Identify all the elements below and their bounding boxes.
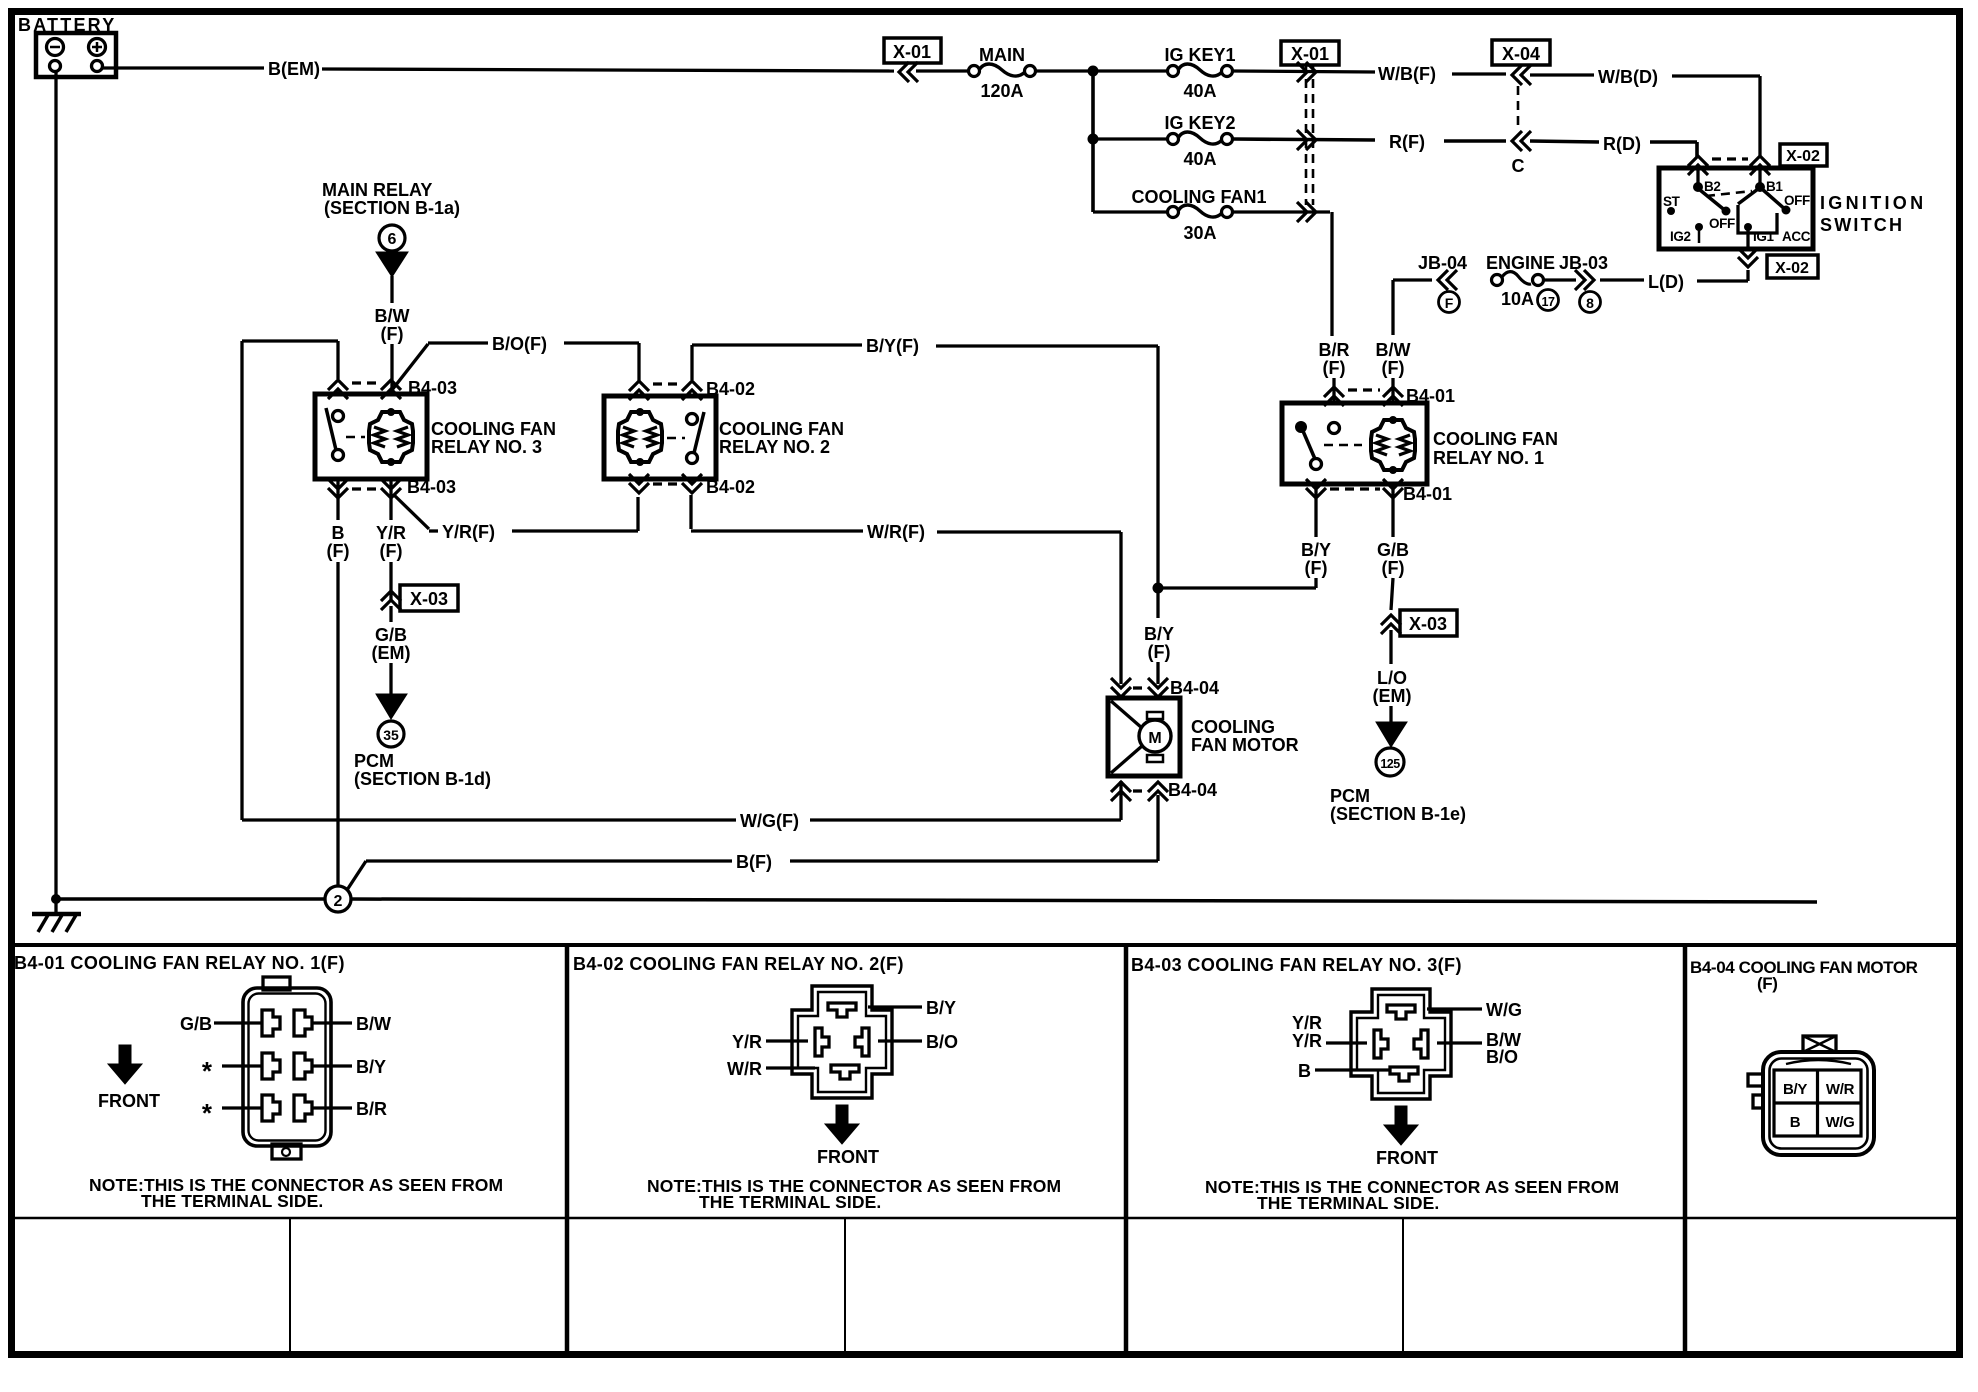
svg-text:B(EM): B(EM) [268, 59, 320, 79]
svg-text:6: 6 [388, 231, 397, 248]
B4-04 connector body [1763, 1052, 1874, 1155]
svg-text:FRONT: FRONT [817, 1147, 879, 1167]
diagonal node 2 to B(F) wire [347, 861, 366, 890]
svg-text:L(D): L(D) [1648, 272, 1684, 292]
svg-text:C: C [1512, 156, 1525, 176]
label B4-01 bottom [1403, 484, 1452, 504]
label IGNITION SWITCH [1820, 193, 1926, 235]
relay NO.1 switch [1295, 421, 1362, 470]
svg-text:R(D): R(D) [1603, 134, 1641, 154]
label Y/R(F) [442, 522, 495, 542]
label B4-04 bottom [1168, 780, 1217, 800]
svg-text:X-03: X-03 [1409, 614, 1447, 634]
cooling fan motor label [1191, 717, 1299, 755]
connector B4-02 top chevrons [629, 381, 702, 400]
wire B/Y to junction [1163, 578, 1316, 588]
svg-text:B/O: B/O [926, 1032, 958, 1052]
label B/Y (F) relay NO.1 [1301, 540, 1331, 578]
fuse MAIN 120A [969, 64, 1036, 77]
connector X-04 dashed line [1517, 86, 1520, 130]
svg-text:X-03: X-03 [410, 589, 448, 609]
connector X-01 right label box [1281, 41, 1339, 65]
ignition switch B1 arm left [1738, 189, 1758, 204]
battery [18, 15, 116, 77]
svg-text:L/O: L/O [1377, 668, 1407, 688]
B4-03 connector body [1351, 989, 1451, 1099]
label W/B(F) [1378, 64, 1436, 84]
fuse COOLING FAN1 30A [1168, 205, 1233, 218]
section header B4-02 [573, 954, 904, 974]
svg-text:ENGINE: ENGINE [1486, 253, 1555, 273]
label SECTION B-1d [354, 769, 491, 789]
arrow from main relay [376, 252, 408, 277]
B4-02 connector body [792, 986, 892, 1098]
label L/O (EM) [1373, 668, 1412, 706]
label 40A row2 [1183, 149, 1216, 169]
wire riser to relay NO.3 pin B [242, 341, 338, 379]
table section divider left of B4-04 [1683, 945, 1688, 1354]
label 30A [1183, 223, 1216, 243]
svg-text:(F): (F) [1382, 558, 1405, 578]
label 120A [980, 81, 1023, 101]
label Y/R (F) vertical [376, 523, 406, 561]
svg-text:B4-02: B4-02 [706, 477, 755, 497]
svg-text:B4-04 COOLING FAN MOTOR: B4-04 COOLING FAN MOTOR [1690, 958, 1918, 977]
table section divider left of B4-02 [565, 945, 570, 1354]
lower row mid divider 2 [844, 1218, 846, 1354]
ground bus wire [51, 894, 1817, 904]
svg-text:COOLING FAN: COOLING FAN [431, 419, 556, 439]
connector B4-04 bottom chevrons [1111, 782, 1168, 801]
svg-text:B4-03 COOLING FAN RELAY NO. 3(: B4-03 COOLING FAN RELAY NO. 3(F) [1131, 955, 1462, 975]
svg-text:X-02: X-02 [1786, 148, 1820, 165]
wire B(EM) label to X-01 [322, 69, 894, 71]
fuse IG KEY2 40A [1168, 132, 1233, 145]
svg-text:B/W: B/W [375, 306, 410, 326]
wire B/Y(F) relay NO.2 up [692, 345, 862, 380]
label COOLING FAN1 [1131, 187, 1266, 207]
junction dot row1 [1088, 66, 1099, 77]
B4-04 top bowtie [1803, 1036, 1836, 1052]
ignition switch IG1 bracket [1738, 205, 1777, 233]
svg-text:PCM: PCM [354, 751, 394, 771]
svg-text:MAIN RELAY: MAIN RELAY [322, 180, 432, 200]
svg-text:RELAY NO. 1: RELAY NO. 1 [1433, 448, 1544, 468]
svg-text:X-04: X-04 [1502, 44, 1540, 64]
relay NO.3 coil [369, 408, 413, 466]
label C under X-04 [1512, 156, 1525, 176]
wire battery negative to ground bus [54, 72, 57, 914]
svg-text:B/Y: B/Y [1144, 624, 1174, 644]
ignition switch box [1659, 168, 1813, 249]
cooling fan motor box [1108, 698, 1180, 776]
label W/R B4-02 [727, 1059, 762, 1079]
svg-text:B1: B1 [1766, 179, 1783, 194]
wire L(D) to JB-03 [1600, 278, 1644, 281]
relay NO.2 label [719, 419, 844, 457]
label MAIN [979, 45, 1025, 65]
wire R(D) to ignition switch B2 [1650, 142, 1697, 157]
wire relay NO.3 pin B down [336, 479, 339, 520]
svg-text:*: * [202, 1056, 213, 1086]
connector B4-02 bottom chevrons [629, 474, 702, 493]
B4-03 pin wires [1315, 1009, 1482, 1070]
vertical bus from row1 junction [1091, 71, 1095, 212]
B4-04 left tabs [1748, 1074, 1763, 1108]
ignition switch label OFF right [1784, 193, 1810, 208]
svg-text:M: M [1148, 730, 1161, 747]
ignition switch label ACC [1782, 229, 1811, 244]
B4-02 pins [815, 1003, 869, 1079]
svg-text:125: 125 [1380, 757, 1400, 771]
wire IG KEY1 to X-01 crossing [1233, 71, 1375, 72]
label B4-03 top [408, 378, 457, 398]
wire row2 to IG KEY2 fuse [1093, 137, 1167, 140]
svg-text:JB-04: JB-04 [1418, 253, 1467, 273]
label B/W (F) above relay NO.3 [375, 306, 410, 344]
label Y/R B4-02 [732, 1032, 762, 1052]
wire W/R(F) relay NO.2 down [691, 495, 863, 531]
relay NO.2 switch [667, 412, 704, 464]
connector X-02 top chevrons [1688, 156, 1770, 175]
note B4-01 line1 [89, 1175, 503, 1195]
wire elbow down to B/R [1330, 212, 1333, 336]
svg-text:W/R: W/R [1826, 1081, 1855, 1098]
label G/B pin [180, 1014, 212, 1034]
svg-text:(F): (F) [1305, 558, 1328, 578]
label 40A row1 [1183, 81, 1216, 101]
svg-text:R(F): R(F) [1389, 132, 1425, 152]
circled terminal 6 [379, 225, 405, 251]
B4-03 FRONT arrow [1384, 1106, 1418, 1145]
label B(F) [736, 852, 772, 872]
wire MAIN fuse to IG KEY1 fuse [1036, 69, 1167, 72]
svg-text:Y/R(F): Y/R(F) [442, 522, 495, 542]
label B/Y B4-04 [1783, 1081, 1807, 1098]
relay NO.3 label [431, 419, 556, 457]
wire JB-03 to ENGINE fuse [1544, 278, 1576, 281]
ignition switch dashed link [1706, 191, 1752, 196]
wire W/R(F) to motor [937, 532, 1121, 684]
arrow to PCM 125 [1376, 722, 1407, 747]
diagonal Y/R(F) branch [393, 494, 429, 529]
connector B4-04 top chevrons [1111, 678, 1168, 697]
wire W/B(F) to X-04 [1452, 72, 1506, 75]
label B/W pin [356, 1014, 391, 1034]
svg-text:B/Y: B/Y [926, 998, 956, 1018]
svg-text:W/G(F): W/G(F) [740, 811, 799, 831]
connector X-04 chevron row2 [1512, 131, 1531, 151]
wire W/B(D) to ignition switch B1 [1672, 76, 1760, 157]
connector X-03 right chevron [1381, 615, 1401, 634]
svg-text:G/B: G/B [180, 1014, 212, 1034]
svg-text:Y/R: Y/R [1292, 1031, 1322, 1051]
svg-text:B2: B2 [1704, 179, 1720, 194]
svg-text:B4-03: B4-03 [407, 477, 456, 497]
svg-text:B(F): B(F) [736, 852, 772, 872]
svg-text:B/W: B/W [356, 1014, 391, 1034]
connector B4-01 bottom chevrons [1306, 479, 1403, 498]
label B/O B4-03 [1486, 1047, 1518, 1067]
svg-text:FRONT: FRONT [98, 1091, 160, 1111]
svg-text:30A: 30A [1183, 223, 1216, 243]
connector X-04 chevron row1 [1512, 65, 1531, 85]
label B(EM) [268, 59, 320, 79]
node 2 on ground bus [325, 886, 351, 912]
svg-text:ST: ST [1663, 194, 1681, 209]
label Y/R lower B4-03 [1292, 1031, 1322, 1051]
label G/B (EM) [372, 625, 411, 663]
wire motor to W/G [810, 781, 1121, 820]
svg-text:COOLING FAN: COOLING FAN [719, 419, 844, 439]
ignition switch label IG2 [1670, 223, 1703, 244]
wire R(F) to X-04 [1444, 139, 1506, 143]
B4-01 FRONT arrow [108, 1045, 142, 1084]
svg-text:IG2: IG2 [1670, 229, 1691, 244]
svg-text:B: B [1298, 1061, 1311, 1081]
svg-text:17: 17 [1542, 295, 1555, 309]
label B/Y pin [356, 1057, 386, 1077]
svg-text:X-01: X-01 [1291, 44, 1329, 64]
wire Y/R(F) to relay NO.2 [512, 497, 638, 531]
label star pin 1 [202, 1056, 213, 1086]
B4-03 pins [1374, 1005, 1428, 1081]
wire B/Y label to motor top [1156, 662, 1159, 684]
label PCM left [354, 751, 394, 771]
wire main relay arrow to B/W label [390, 276, 393, 303]
svg-text:PCM: PCM [1330, 786, 1370, 806]
svg-text:RELAY NO. 2: RELAY NO. 2 [719, 437, 830, 457]
svg-text:FRONT: FRONT [1376, 1148, 1438, 1168]
relay NO.2 coil [618, 408, 662, 466]
svg-text:F: F [1445, 295, 1454, 311]
wire B/O(F) left stub [428, 341, 488, 344]
svg-text:120A: 120A [980, 81, 1023, 101]
svg-text:B/W: B/W [1376, 340, 1411, 360]
svg-text:B: B [332, 523, 345, 543]
svg-text:ACC: ACC [1782, 229, 1811, 244]
label B B4-03 [1298, 1061, 1311, 1081]
table section divider left of B4-03 [1124, 945, 1129, 1354]
wire B(F) label to motor [790, 795, 1158, 861]
label B/R (F) [1319, 340, 1350, 378]
svg-text:B4-02 COOLING FAN RELAY NO. 2(: B4-02 COOLING FAN RELAY NO. 2(F) [573, 954, 904, 974]
wire B/Y(F) to vertical [936, 346, 1158, 586]
label B B4-04 [1790, 1114, 1801, 1131]
svg-text:B/O(F): B/O(F) [492, 334, 547, 354]
relay NO.3 switch [326, 408, 365, 461]
note B4-02 line2 [699, 1192, 881, 1212]
wire X-01 to MAIN fuse [916, 69, 968, 72]
svg-text:THE TERMINAL SIDE.: THE TERMINAL SIDE. [141, 1191, 323, 1211]
wire X-04 to W/B(D) label [1530, 73, 1594, 76]
svg-text:B4-04: B4-04 [1168, 780, 1217, 800]
ignition switch label ST [1663, 194, 1681, 215]
svg-text:COOLING FAN: COOLING FAN [1433, 429, 1558, 449]
label B4-01 top [1406, 386, 1455, 406]
svg-text:W/R: W/R [727, 1059, 762, 1079]
label IG KEY1 [1164, 45, 1235, 65]
B4-02 FRONT arrow [825, 1105, 859, 1144]
svg-text:B/Y(F): B/Y(F) [866, 336, 919, 356]
label W/G(F) [740, 811, 799, 831]
label JB-04 [1418, 253, 1467, 273]
svg-text:8: 8 [1586, 295, 1594, 311]
svg-text:Y/R: Y/R [732, 1032, 762, 1052]
B4-02 pin wires [766, 1007, 922, 1068]
wire X-03 to G/B label [389, 606, 392, 622]
circled terminal F [1439, 292, 1460, 313]
svg-text:(SECTION B-1e): (SECTION B-1e) [1330, 804, 1466, 824]
svg-text:(F): (F) [380, 541, 403, 561]
ignition switch B1 arm right [1762, 189, 1791, 215]
svg-text:2: 2 [334, 893, 343, 910]
connector X-01 inline dashed line [1306, 64, 1313, 205]
B4-01 connector body [243, 977, 331, 1159]
svg-text:40A: 40A [1183, 81, 1216, 101]
label B/W (F) right [1376, 340, 1411, 378]
svg-text:B4-01 COOLING FAN RELAY NO. 1(: B4-01 COOLING FAN RELAY NO. 1(F) [14, 953, 345, 973]
svg-text:40A: 40A [1183, 149, 1216, 169]
svg-text:(F): (F) [1382, 358, 1405, 378]
label Y/R upper B4-03 [1292, 1013, 1322, 1033]
svg-text:B/Y: B/Y [1783, 1081, 1807, 1098]
junction dot row2 [1088, 134, 1099, 145]
fuse ENGINE 10A [1492, 272, 1544, 286]
wire COOLING FAN1 to X-01 crossing [1233, 210, 1330, 213]
label B/O B4-02 [926, 1032, 958, 1052]
note B4-01 line2 [141, 1191, 323, 1211]
label W/R(F) [867, 522, 925, 542]
cooling fan relay NO.1 box [1282, 403, 1427, 484]
note B4-03 line1 [1205, 1177, 1619, 1197]
svg-text:*: * [202, 1098, 213, 1128]
lower row mid divider 1 [289, 1218, 291, 1354]
circled terminal 125 [1376, 748, 1404, 776]
ignition switch label OFF mid [1709, 216, 1735, 231]
wire Y/R(F) horizontal left [429, 529, 438, 532]
svg-text:THE TERMINAL SIDE.: THE TERMINAL SIDE. [699, 1192, 881, 1212]
svg-text:B/R: B/R [356, 1099, 387, 1119]
label W/R B4-04 [1826, 1081, 1855, 1098]
wire L/O to PCM arrow [1389, 706, 1392, 724]
svg-text:B/O: B/O [1486, 1047, 1518, 1067]
svg-text:B/Y: B/Y [1301, 540, 1331, 560]
connector JB-04 chevron [1438, 270, 1457, 290]
note B4-03 line2 [1257, 1193, 1439, 1213]
label B/W B4-03 [1486, 1030, 1521, 1050]
svg-text:IGNITION: IGNITION [1820, 193, 1926, 213]
relay NO.1 coil [1371, 416, 1415, 474]
label B4-02 bottom [706, 477, 755, 497]
svg-text:W/R(F): W/R(F) [867, 522, 925, 542]
connector X-02 bottom chevron [1738, 248, 1758, 267]
connector X-03 left chevron [381, 591, 401, 610]
wire G/B to X-03 right [1391, 578, 1393, 610]
connector X-01 chevron row1 [1297, 62, 1316, 82]
svg-text:JB-03: JB-03 [1559, 253, 1608, 273]
label star pin 2 [202, 1098, 213, 1128]
fuse IG KEY1 40A [1168, 64, 1233, 77]
cooling fan relay NO.3 box [315, 394, 427, 479]
svg-text:B/Y: B/Y [356, 1057, 386, 1077]
svg-text:W/B(F): W/B(F) [1378, 64, 1436, 84]
label B (F) [327, 523, 350, 561]
svg-text:(F): (F) [1757, 974, 1778, 993]
B4-04 pin grid [1774, 1070, 1861, 1136]
label B/Y (F) at motor [1144, 624, 1174, 662]
cooling fan relay NO.2 box [604, 396, 716, 479]
ignition switch B2 contact [1693, 168, 1720, 194]
svg-text:W/G: W/G [1825, 1114, 1854, 1131]
connector X-01 chevron row2 [1297, 130, 1316, 150]
svg-text:B: B [1790, 1114, 1801, 1131]
svg-text:X-02: X-02 [1775, 260, 1809, 277]
svg-text:(EM): (EM) [1373, 686, 1412, 706]
ground symbol [32, 914, 81, 932]
cooling fan motor diagonals [1111, 701, 1142, 773]
label JB-03 [1559, 253, 1608, 273]
svg-text:IG KEY1: IG KEY1 [1164, 45, 1235, 65]
B4-01 pins [262, 1010, 312, 1121]
wire G/B to PCM arrow [389, 663, 392, 696]
label FRONT B4-02 [817, 1147, 879, 1167]
arrow to PCM 35 [376, 694, 407, 719]
svg-text:G/B: G/B [1377, 540, 1409, 560]
label B/O(F) [492, 334, 547, 354]
cooling fan motor M circle [1139, 712, 1171, 762]
connector X-02 top label box [1780, 144, 1827, 166]
section header B4-03 [1131, 955, 1462, 975]
svg-text:COOLING: COOLING [1191, 717, 1275, 737]
svg-text:G/B: G/B [375, 625, 407, 645]
label B/R pin [356, 1099, 387, 1119]
B4-01 pin wires [214, 1023, 352, 1108]
connector B4-03 bottom chevrons [328, 479, 401, 498]
schematic/table divider line [8, 943, 1963, 947]
circled terminal 35 [378, 721, 404, 747]
svg-text:Y/R: Y/R [1292, 1013, 1322, 1033]
wire B/W to relay NO.1 coil [1391, 378, 1394, 403]
label L(D) [1648, 272, 1684, 292]
svg-text:X-01: X-01 [893, 42, 931, 62]
label B4-04 top [1170, 678, 1219, 698]
svg-text:B/R: B/R [1319, 340, 1350, 360]
circled terminal 17 [1538, 290, 1559, 311]
label B4-02 top [706, 379, 755, 399]
wire G/B relay NO.1 down [1391, 484, 1394, 537]
svg-text:35: 35 [383, 727, 399, 743]
connector X-01 left label box [884, 38, 941, 63]
svg-text:(F): (F) [327, 541, 350, 561]
svg-text:W/G: W/G [1486, 1000, 1522, 1020]
label B/Y(F) [866, 336, 919, 356]
connector X-01 left chevron [899, 62, 918, 82]
label R(F) [1389, 132, 1425, 152]
label MAIN RELAY [322, 180, 432, 200]
wire B(EM) battery to label [102, 66, 264, 69]
section header B4-04 [1690, 958, 1918, 993]
wire IG KEY2 to X-01 crossing [1233, 139, 1375, 140]
label IG KEY2 [1164, 113, 1235, 133]
label R(D) [1603, 134, 1641, 154]
svg-text:OFF: OFF [1709, 216, 1735, 231]
label SECTION B-1a [324, 198, 460, 218]
svg-text:MAIN: MAIN [979, 45, 1025, 65]
ignition switch B2 arm [1700, 190, 1731, 216]
connector B4-01 top chevrons [1324, 387, 1403, 406]
wire B/Y junction to motor [1156, 588, 1159, 618]
